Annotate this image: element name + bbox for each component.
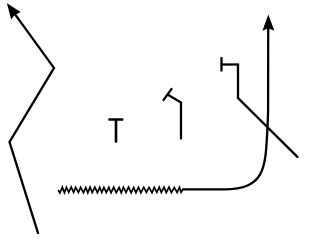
flag symbol: tick, horizontal, vertical drop	[222, 58, 239, 98]
wire: left bent arrow shaft	[10, 12, 55, 234]
arrowhead: left arrow pointing up-left	[7, 4, 20, 19]
wire: horizontal then curve up to vertical arrow	[183, 28, 268, 189]
T symbol (capacitor plate / tee)	[110, 120, 123, 142]
hockey-stick symbol with tilted bar	[164, 89, 182, 139]
resistor zigzag	[59, 187, 184, 193]
arrowhead: top arrow pointing up	[263, 16, 274, 30]
wire: diagonal from flag crossing the arrow	[238, 98, 298, 157]
